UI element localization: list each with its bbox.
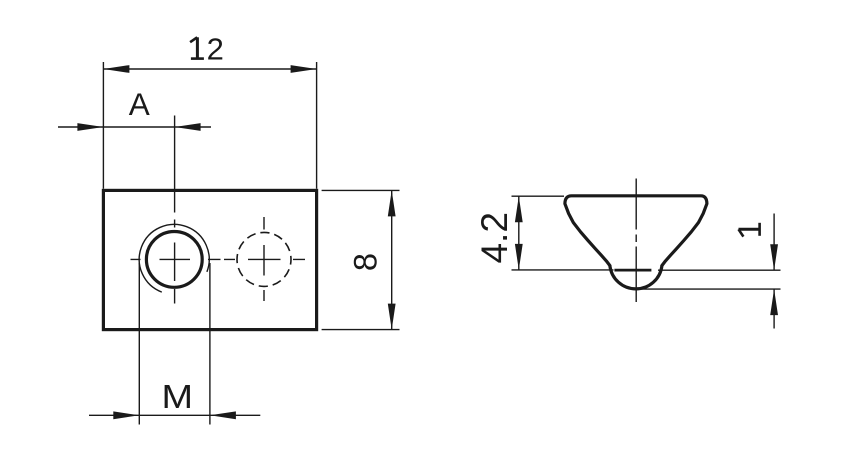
svg-text:4.2: 4.2	[474, 212, 515, 263]
svg-text:M: M	[161, 378, 193, 416]
svg-text:2: 2	[207, 31, 224, 66]
svg-text:8: 8	[347, 253, 384, 271]
svg-text:A: A	[129, 86, 150, 122]
